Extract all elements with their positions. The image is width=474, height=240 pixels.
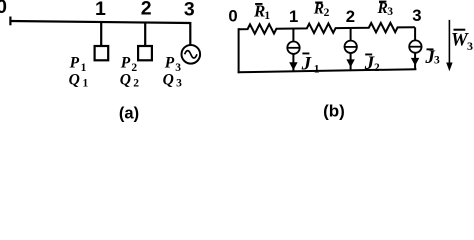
svg-text:1: 1 [81,62,87,74]
svg-text:2: 2 [346,7,355,26]
svg-text:2: 2 [141,0,152,20]
svg-text:3: 3 [412,6,421,25]
svg-text:R: R [377,0,388,17]
svg-text:(a): (a) [119,105,139,123]
svg-text:1: 1 [289,7,298,26]
svg-text:P: P [121,55,131,72]
svg-text:0: 0 [228,7,237,26]
svg-text:2: 2 [324,7,330,19]
svg-text:Q: Q [69,72,80,89]
svg-text:P: P [165,55,175,72]
svg-text:P: P [70,55,80,72]
svg-text:3: 3 [184,0,195,20]
svg-text:J: J [301,53,312,74]
svg-text:0: 0 [0,0,7,18]
svg-text:1: 1 [314,63,320,75]
svg-text:2: 2 [133,78,139,90]
svg-text:1: 1 [264,10,270,22]
svg-text:3: 3 [434,55,440,67]
svg-text:1: 1 [83,78,89,90]
svg-text:2: 2 [374,62,380,74]
svg-text:1: 1 [95,0,106,20]
svg-text:3: 3 [176,78,182,90]
svg-text:3: 3 [175,62,181,74]
svg-text:Q: Q [120,72,131,89]
svg-text:Q: Q [163,72,174,89]
svg-text:3: 3 [467,39,473,53]
svg-text:(b): (b) [323,102,345,121]
svg-text:3: 3 [387,6,393,18]
svg-text:2: 2 [131,62,137,74]
